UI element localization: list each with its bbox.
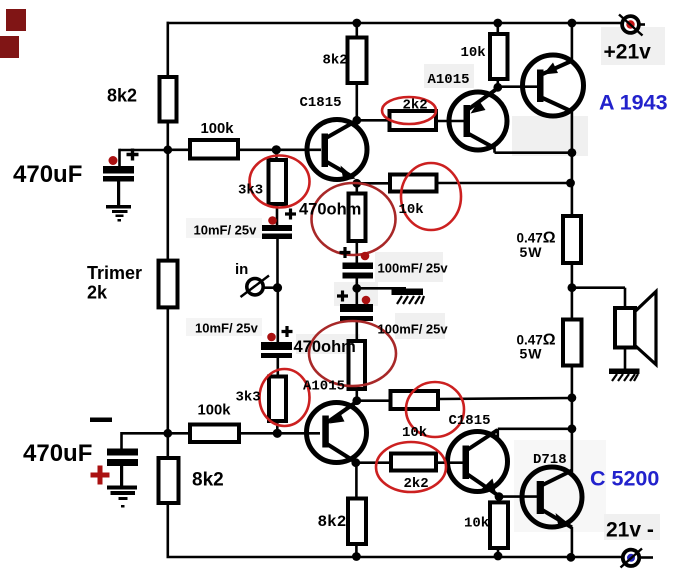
wire Q1 collector node to 2k2 bbox=[357, 119, 389, 122]
plus 100mF lower bbox=[337, 291, 348, 302]
transistor Q5 C1815 lower NPN bbox=[448, 430, 508, 496]
wire right rail top to Q3 emitter bbox=[571, 22, 574, 63]
wire base node to Q1 base bbox=[276, 149, 321, 152]
node Q2-Q3 collector / right rail bbox=[568, 148, 577, 157]
node 470uF / 100k / rail bbox=[163, 145, 172, 154]
wire 2k2 right to Q2 base bbox=[436, 120, 464, 123]
wire 100mF cap to ground node bbox=[355, 279, 358, 289]
svg-text:+21v: +21v bbox=[604, 41, 652, 64]
svg-text:470uF: 470uF bbox=[23, 440, 92, 467]
red dot 100mF upper bbox=[361, 252, 370, 261]
resistor 8k2 top-left bbox=[160, 77, 177, 122]
svg-text:8k2: 8k2 bbox=[107, 86, 137, 106]
wire Q4 collector node to 2k2 lower bbox=[356, 461, 391, 464]
wire top rail to 10k vertical bbox=[496, 22, 499, 34]
resistor 3k3 lower bbox=[269, 377, 286, 422]
wire 10k vertical to Q2 emitter node bbox=[496, 79, 499, 87]
wire node A to 100k left bbox=[168, 149, 190, 152]
svg-text:100mF/ 25v: 100mF/ 25v bbox=[378, 261, 449, 276]
transistor Q6 D718 output NPN bbox=[522, 467, 582, 529]
node emitter 2 bbox=[352, 396, 361, 405]
transistor Q2 A1015 upper PNP bbox=[449, 88, 507, 150]
red plus 470uF lower bbox=[91, 466, 110, 485]
wire top rail to 8k2 mid resistor bbox=[355, 22, 358, 37]
wire output node to 0.47 lower bbox=[571, 366, 574, 473]
annotation ellipse around 3k3 lower bbox=[260, 369, 310, 426]
ground below 470uF lower bbox=[120, 466, 123, 486]
capacitor 10mF/25v lower bbox=[261, 342, 292, 350]
wire Q2 collector to output line bbox=[493, 144, 496, 153]
wire base node down to 3k3 bbox=[275, 150, 278, 160]
wire 10mF lower cap to 3k3 lower bbox=[276, 358, 279, 376]
plus 10mF lower bbox=[282, 326, 293, 337]
resistor 10k vertical top bbox=[490, 34, 508, 79]
svg-text:C1815: C1815 bbox=[449, 413, 491, 429]
capacitor 470uF lower bbox=[107, 449, 138, 456]
resistor 8k2 mid-top bbox=[348, 38, 367, 84]
svg-text:C 5200: C 5200 bbox=[590, 467, 659, 491]
wire 8k2 mid to Q1 collector node bbox=[355, 83, 358, 120]
wire Q3 collector to junction bbox=[571, 109, 574, 216]
wire Q5 emitter node to D718 base bbox=[499, 495, 537, 498]
wire Q5 collector stub bbox=[496, 429, 499, 437]
wire output node to speaker bbox=[572, 286, 625, 289]
annotation ellipse around 470ohm upper bbox=[312, 183, 396, 255]
ground mid (hatched) bbox=[392, 289, 424, 296]
ground below speaker (hatched) bbox=[609, 369, 640, 375]
svg-text:10k: 10k bbox=[399, 202, 424, 218]
svg-text:2k2: 2k2 bbox=[404, 476, 429, 492]
transistor Q3 A1943 output PNP bbox=[523, 55, 584, 116]
svg-text:100mF/ 25v: 100mF/ 25v bbox=[378, 322, 449, 337]
svg-text:470uF: 470uF bbox=[13, 161, 82, 188]
wire 100k lower right to base node 2 bbox=[239, 432, 277, 435]
terminal 21v- bbox=[623, 550, 639, 566]
svg-text:D718: D718 bbox=[533, 452, 567, 468]
svg-text:5W: 5W bbox=[520, 346, 543, 362]
CAPACITORS bbox=[103, 166, 373, 466]
wire top rail stub right of terminal bbox=[638, 23, 645, 26]
svg-text:10k: 10k bbox=[464, 516, 489, 532]
resistor 0.47 ohm lower bbox=[563, 320, 582, 366]
node 10k lower / right rail bbox=[568, 393, 577, 402]
speaker bbox=[615, 308, 635, 348]
node Q1 collector bbox=[352, 116, 361, 125]
POLARITY MARKS bbox=[90, 149, 370, 485]
node base 1 bbox=[272, 145, 281, 154]
resistor 470ohm upper bbox=[349, 194, 366, 242]
transistor Q1 C1815 upper NPN bbox=[307, 120, 367, 181]
wire 10mF cap to in node bbox=[276, 239, 279, 288]
capacitor 470uF upper bbox=[103, 166, 134, 174]
resistor 100k lower bbox=[190, 425, 239, 443]
wire 3k3 bottom to 10mF cap bbox=[276, 204, 279, 225]
wire Q1 emitter node to 470ohm top bbox=[355, 183, 358, 193]
svg-text:3k3: 3k3 bbox=[238, 183, 263, 199]
wire node B to 100k lower left bbox=[168, 432, 190, 435]
svg-text:A 1943: A 1943 bbox=[599, 91, 668, 115]
wire ground node to 100mF lower cap bbox=[355, 288, 358, 304]
svg-text:10k: 10k bbox=[461, 45, 486, 61]
wire left rail lower bbox=[167, 307, 170, 458]
resistor 8k2 lower-left bbox=[159, 458, 179, 503]
resistor 0.47 ohm upper bbox=[563, 216, 581, 263]
node D718 base bbox=[495, 492, 504, 501]
wire Q2 emitter node to Q3 base bbox=[498, 85, 537, 88]
svg-text:8k2: 8k2 bbox=[318, 513, 347, 531]
capacitor 100mF/25v upper bbox=[343, 263, 374, 270]
svg-text:100k: 100k bbox=[198, 403, 232, 419]
node Q4 collector bbox=[351, 458, 360, 467]
svg-text:10mF/ 25v: 10mF/ 25v bbox=[194, 223, 258, 238]
wire 2k2 lower right to Q5 base bbox=[436, 461, 463, 464]
svg-text:10k: 10k bbox=[402, 425, 427, 441]
GROUNDS bbox=[106, 182, 640, 508]
node base 2 bbox=[273, 429, 282, 438]
capacitor 10mF/25v upper bbox=[262, 225, 292, 231]
svg-text:5W: 5W bbox=[520, 244, 543, 260]
wire Q5 collector node to right rail bbox=[498, 427, 572, 430]
node top rail / 10k bbox=[493, 19, 502, 28]
red dot 100mF lower bbox=[362, 296, 371, 305]
node mid ground bbox=[352, 284, 361, 293]
wire 8k2 bottom to bottom rail bbox=[355, 544, 358, 557]
node Q1 emitter bbox=[352, 179, 361, 188]
wire 470ohm bottom to 100mF cap bbox=[355, 241, 358, 263]
svg-text:21v -: 21v - bbox=[606, 519, 654, 542]
wire emitter node 2 to 10k lower left bbox=[357, 399, 390, 402]
svg-text:Trimer: Trimer bbox=[87, 263, 142, 283]
svg-text:100k: 100k bbox=[201, 121, 235, 137]
annotation ellipse around 2k2 upper bbox=[382, 97, 436, 124]
annotation ellipse around 2k2 lower bbox=[376, 442, 446, 492]
node top rail / right rail bbox=[568, 19, 577, 28]
annotation ellipse around 10k lower bbox=[406, 382, 464, 437]
resistor 3k3 upper bbox=[269, 160, 287, 204]
wire 0.47 top to output node bbox=[571, 263, 574, 320]
wire 100k right to base node bbox=[238, 149, 276, 152]
TRANSISTORS bbox=[307, 55, 584, 529]
ground below 470uF upper bbox=[117, 182, 120, 206]
wire 470uF top cap horizontal bbox=[120, 149, 168, 152]
wire D718 emitter to bottom rail bbox=[571, 527, 574, 557]
resistor 2k2 lower bbox=[391, 454, 436, 471]
capacitor 100mF/25v lower bbox=[340, 304, 373, 312]
wire Q2 collector node to right rail bbox=[495, 151, 572, 154]
node 10k bottom rail bbox=[494, 552, 503, 561]
wire Q1 emitter node to 10k left bbox=[357, 182, 390, 185]
wire bottom rail stub right of terminal bbox=[639, 556, 654, 559]
RESISTORS bbox=[159, 34, 582, 548]
wire Q5 emitter node to 10k lower vertical bbox=[498, 497, 501, 503]
resistor 10k horizontal upper bbox=[390, 175, 437, 192]
wire 10k right to output rail bbox=[437, 182, 572, 185]
svg-text:2k: 2k bbox=[87, 283, 108, 303]
wire speaker to ground bbox=[624, 348, 627, 370]
annotation ellipse around 3k3 upper bbox=[250, 156, 310, 208]
wire 470uF lower cap horizontal bbox=[122, 432, 168, 435]
terminal +21v bbox=[622, 16, 639, 33]
red dot 470uF upper bbox=[109, 156, 118, 165]
node output bbox=[568, 283, 577, 292]
node 8k2 bottom rail bbox=[352, 552, 361, 561]
transistor Q4 driver lower bbox=[307, 401, 367, 463]
svg-text:10mF/ 25v: 10mF/ 25v bbox=[195, 321, 259, 336]
TERMINALS bbox=[241, 15, 643, 568]
svg-text:470ohm: 470ohm bbox=[294, 338, 356, 356]
svg-text:2k2: 2k2 bbox=[403, 98, 428, 114]
minus 470uF lower bbox=[90, 418, 112, 423]
svg-text:A1015: A1015 bbox=[303, 379, 345, 395]
wire Q4 collector node to 8k2 bottom bbox=[355, 463, 358, 498]
SPEAKER bbox=[615, 292, 656, 365]
node Q5 collector / right rail bbox=[568, 424, 577, 433]
wire 470uF top cap stub bbox=[118, 149, 121, 166]
node 470uF lower / rail bbox=[163, 429, 172, 438]
wire base node 2 to Q4 base bbox=[277, 432, 320, 435]
RED ANNOTATION ELLIPSES bbox=[250, 97, 465, 492]
svg-text:8k2: 8k2 bbox=[323, 52, 348, 68]
red dot 10mF lower bbox=[267, 333, 276, 342]
resistor 10k vertical bottom bbox=[490, 502, 508, 548]
wire 470uF lower cap stub bbox=[120, 432, 123, 449]
resistor 10k horizontal lower bbox=[391, 391, 439, 409]
node D718 emitter bottom rail bbox=[567, 553, 576, 562]
red dot 10mF upper bbox=[268, 216, 277, 225]
trimmer 2k bbox=[159, 261, 178, 308]
resistor 470ohm lower bbox=[349, 341, 366, 389]
node top rail / 8k2 bbox=[352, 19, 361, 28]
wire ground node to mid ground bbox=[357, 287, 406, 290]
wire in connector to in node bbox=[264, 286, 278, 289]
wire 3k3 lower to base node 2 bbox=[276, 421, 279, 433]
svg-text:8k2: 8k2 bbox=[192, 470, 224, 491]
annotation ellipse around 470ohm lower bbox=[309, 321, 396, 386]
node Q2 emitter / Q3 base / 10k bbox=[493, 83, 502, 92]
resistor 2k2 upper bbox=[390, 111, 437, 130]
wire left rail bottom bbox=[167, 503, 170, 558]
svg-text:C1815: C1815 bbox=[300, 95, 342, 111]
svg-text:3k3: 3k3 bbox=[236, 390, 261, 406]
wire top rail bbox=[167, 22, 623, 25]
svg-text:470ohm: 470ohm bbox=[299, 201, 361, 219]
wire in node down to 10mF lower cap bbox=[276, 288, 279, 342]
wire left rail upper bbox=[167, 22, 170, 77]
resistor 100k upper bbox=[190, 140, 238, 159]
wire 100mF lower cap to 470ohm lower bbox=[355, 321, 358, 341]
plus 470uF upper bbox=[127, 149, 139, 161]
node 10k / right rail upper bbox=[566, 179, 575, 188]
svg-text:in: in bbox=[235, 261, 248, 278]
plus 10mF upper bbox=[285, 209, 296, 220]
wire bottom rail bbox=[167, 556, 624, 559]
wire 10k lower right to output rail bbox=[438, 398, 572, 399]
wire left rail mid bbox=[167, 122, 170, 261]
wire 470ohm lower bottom to emitter node 2 bbox=[355, 389, 358, 401]
wire speaker feed down bbox=[624, 288, 627, 308]
input connector bbox=[247, 279, 263, 295]
svg-text:A1015: A1015 bbox=[428, 72, 470, 88]
node in bbox=[273, 283, 282, 292]
wire 10k lower vertical to bottom rail bbox=[497, 548, 500, 557]
plus 100mF upper bbox=[340, 247, 351, 258]
annotation ellipse around 10k upper bbox=[401, 163, 461, 230]
resistor 8k2 mid-bottom bbox=[348, 499, 366, 545]
